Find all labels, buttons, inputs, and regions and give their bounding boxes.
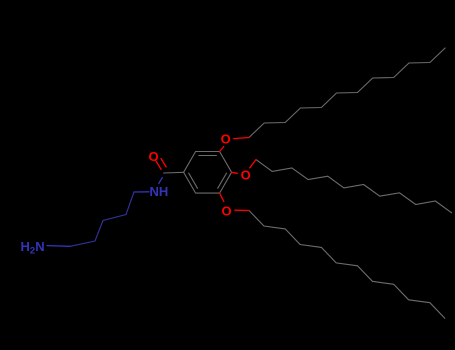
svg-text:NH: NH [150, 184, 169, 199]
svg-text:O: O [221, 132, 231, 147]
svg-text:O: O [148, 149, 158, 164]
svg-text:O: O [241, 168, 251, 183]
svg-text:O: O [222, 203, 232, 218]
